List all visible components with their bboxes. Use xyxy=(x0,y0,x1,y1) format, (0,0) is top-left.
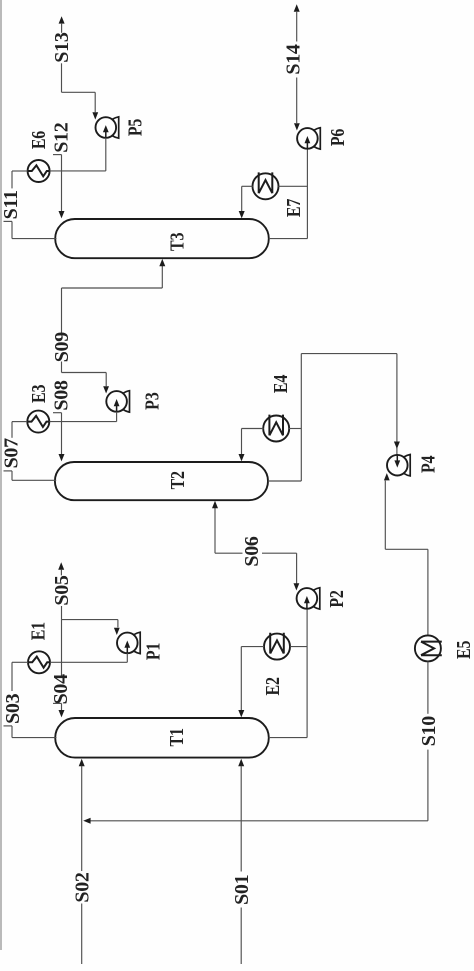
svg-text:S13: S13 xyxy=(51,32,73,63)
svg-text:S06: S06 xyxy=(241,536,263,567)
svg-text:S10: S10 xyxy=(418,716,440,747)
svg-text:P5: P5 xyxy=(124,119,146,137)
svg-text:P3: P3 xyxy=(141,392,163,410)
svg-text:E3: E3 xyxy=(28,384,50,402)
svg-text:E4: E4 xyxy=(269,375,291,393)
svg-text:S09: S09 xyxy=(51,332,73,363)
svg-text:S08: S08 xyxy=(51,380,73,411)
svg-text:S03: S03 xyxy=(2,693,24,724)
svg-text:S04: S04 xyxy=(50,674,72,705)
svg-text:T2: T2 xyxy=(167,471,189,489)
svg-text:E2: E2 xyxy=(261,677,283,695)
svg-text:S05: S05 xyxy=(51,575,73,606)
svg-text:P1: P1 xyxy=(142,643,164,660)
svg-text:S14: S14 xyxy=(283,44,305,75)
svg-text:T3: T3 xyxy=(166,232,188,250)
svg-text:S11: S11 xyxy=(0,190,22,219)
svg-text:E5: E5 xyxy=(452,640,474,658)
svg-text:P2: P2 xyxy=(326,590,348,608)
svg-text:P4: P4 xyxy=(417,455,439,473)
svg-text:S07: S07 xyxy=(1,438,23,469)
svg-text:P6: P6 xyxy=(327,129,349,147)
svg-text:T1: T1 xyxy=(165,728,187,746)
svg-text:E1: E1 xyxy=(27,622,49,640)
svg-text:S12: S12 xyxy=(50,122,72,153)
svg-text:S01: S01 xyxy=(231,875,253,905)
svg-text:E6: E6 xyxy=(28,131,50,149)
svg-text:E7: E7 xyxy=(282,199,304,217)
svg-text:S02: S02 xyxy=(71,872,93,903)
